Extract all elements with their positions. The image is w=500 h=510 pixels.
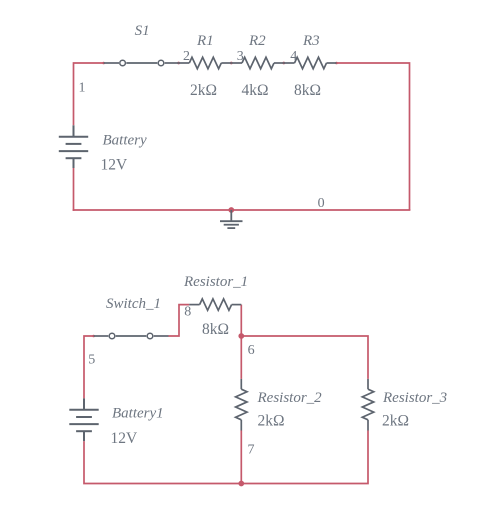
node 3 junction dot xyxy=(230,62,233,65)
svg-text:1: 1 xyxy=(79,81,86,96)
svg-text:2kΩ: 2kΩ xyxy=(258,413,285,430)
svg-text:R2: R2 xyxy=(248,33,266,49)
wire left vertical battery to bottom xyxy=(73,168,75,211)
svg-text:Resistor_1: Resistor_1 xyxy=(183,274,248,290)
wire node 6 to resistor_2 xyxy=(240,336,242,379)
wire left vertical battery1 to bottom and bottom horizontal and right vertical lower xyxy=(84,431,368,484)
svg-text:6: 6 xyxy=(248,343,255,358)
svg-text:R1: R1 xyxy=(196,33,214,49)
svg-text:12V: 12V xyxy=(111,430,139,447)
resistor Resistor_1 xyxy=(189,299,241,310)
svg-text:Resistor_3: Resistor_3 xyxy=(382,390,447,406)
ground junction dot xyxy=(228,207,234,213)
wire resistor_1 right drop to node 6 xyxy=(240,305,242,336)
resistor Resistor_2 xyxy=(236,379,247,431)
junction dot at switch_1 left xyxy=(92,335,95,338)
svg-text:8kΩ: 8kΩ xyxy=(202,321,229,338)
junction dot right of R3 xyxy=(335,62,338,65)
node 2 junction dot xyxy=(177,62,180,65)
value 8kΩ of Resistor_1 xyxy=(202,321,229,338)
label S1 xyxy=(135,23,150,39)
label R2 xyxy=(248,33,266,49)
label Resistor_1 xyxy=(183,274,248,290)
svg-text:5: 5 xyxy=(88,353,95,368)
svg-text:Switch_1: Switch_1 xyxy=(106,296,161,312)
svg-text:8: 8 xyxy=(184,305,191,320)
label Battery xyxy=(103,133,147,149)
node 8 label xyxy=(184,305,191,320)
node junction dot at switch left xyxy=(102,62,105,65)
svg-text:12V: 12V xyxy=(101,157,129,174)
ground xyxy=(220,210,243,228)
wire bottom horizontal xyxy=(73,209,411,211)
resistor R2 xyxy=(231,57,283,68)
label Resistor_3 xyxy=(382,390,447,406)
wire switch to resistor_1 riser xyxy=(169,305,190,336)
node 1 label xyxy=(79,81,86,96)
value 2kΩ of Resistor_3 xyxy=(382,413,409,430)
node 3 label xyxy=(237,49,244,64)
resistor R1 xyxy=(179,57,232,68)
svg-text:4: 4 xyxy=(290,49,297,64)
value 8kΩ of R3 xyxy=(294,82,321,99)
switch S1 xyxy=(104,60,179,66)
resistor R3 xyxy=(284,57,337,68)
value 2kΩ of R1 xyxy=(190,82,217,99)
label Battery1 xyxy=(112,406,164,422)
node 2 label xyxy=(183,49,190,64)
wire top-left run and left vertical to battery xyxy=(74,63,104,125)
svg-text:8kΩ: 8kΩ xyxy=(294,82,321,99)
node 5 label xyxy=(88,353,95,368)
svg-text:2: 2 xyxy=(183,49,190,64)
svg-text:7: 7 xyxy=(248,443,255,458)
battery Battery1 xyxy=(69,398,98,441)
svg-text:4kΩ: 4kΩ xyxy=(242,82,269,99)
svg-text:Battery1: Battery1 xyxy=(112,406,164,422)
label Resistor_2 xyxy=(257,390,323,406)
node 6 label xyxy=(248,343,255,358)
svg-text:0: 0 xyxy=(318,196,325,211)
node 7 label xyxy=(248,443,255,458)
label R1 xyxy=(196,33,214,49)
svg-text:Battery: Battery xyxy=(103,133,147,149)
svg-text:Resistor_2: Resistor_2 xyxy=(257,390,323,406)
node 4 label xyxy=(290,49,297,64)
label R3 xyxy=(302,33,320,49)
wire top-right run and right vertical xyxy=(337,63,410,210)
node 4 junction dot xyxy=(282,62,285,65)
node 6 junction dot xyxy=(238,333,244,339)
value 4kΩ of R2 xyxy=(242,82,269,99)
node 0 label xyxy=(318,196,325,211)
wire resistor_2 to node 7 bottom xyxy=(240,431,242,484)
wire node6 horizontal and right vertical upper xyxy=(241,336,368,379)
value 2kΩ of Resistor_2 xyxy=(258,413,285,430)
bottom junction dot xyxy=(238,481,244,487)
value 12V of Battery xyxy=(101,157,129,174)
value 12V of Battery1 xyxy=(111,430,139,447)
svg-text:R3: R3 xyxy=(302,33,320,49)
svg-text:S1: S1 xyxy=(135,23,150,39)
svg-text:3: 3 xyxy=(237,49,244,64)
svg-text:2kΩ: 2kΩ xyxy=(190,82,217,99)
resistor Resistor_3 xyxy=(362,379,373,431)
wire top-left run and left vertical to battery1 xyxy=(84,336,94,398)
switch Switch_1 xyxy=(94,333,169,339)
svg-text:2kΩ: 2kΩ xyxy=(382,413,409,430)
battery Battery xyxy=(59,125,88,168)
label Switch_1 xyxy=(106,296,161,312)
